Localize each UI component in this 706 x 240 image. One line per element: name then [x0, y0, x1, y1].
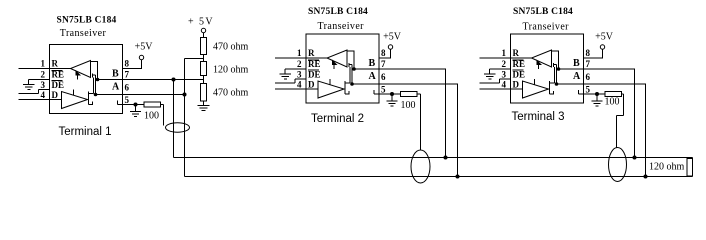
wire A U3: [584, 84, 646, 177]
svg-text:Terminal 3: Terminal 3: [512, 111, 565, 123]
ground pin5 U3: [592, 94, 603, 106]
node A-bus U2: [456, 175, 460, 179]
wire B U2: [379, 69, 446, 158]
node B-bus junction U1: [172, 78, 176, 82]
svg-text:+5V: +5V: [595, 31, 614, 42]
node B-bus U3: [633, 156, 637, 160]
node A-bus U3: [644, 175, 648, 179]
svg-text:+5V: +5V: [383, 31, 402, 42]
wire A U1: [123, 94, 185, 96]
node A junction U1: [183, 93, 187, 97]
resistor 470 ohm upper: [201, 38, 207, 55]
cable ellipse U1: [166, 123, 190, 132]
svg-text:120 ohm: 120 ohm: [649, 162, 685, 173]
wire chain 1: [203, 55, 205, 62]
svg-text:470 ohm: 470 ohm: [213, 42, 249, 53]
wire 100 tail U3: [617, 94, 624, 148]
svg-text:Transeiver: Transeiver: [60, 28, 107, 39]
svg-text:Terminal 2: Terminal 2: [311, 113, 364, 125]
wire B U3: [584, 69, 635, 158]
wire A riser/drop U1: [185, 59, 204, 177]
node B-bus U2: [444, 156, 448, 160]
resistor 120 ohm chain: [201, 62, 207, 76]
svg-text:120 ohm: 120 ohm: [213, 65, 249, 76]
transceiver U2: [275, 34, 386, 103]
ground pin5 U2: [387, 94, 398, 106]
svg-text:Transeiver: Transeiver: [523, 21, 570, 32]
wire B U1: [123, 79, 204, 81]
svg-text:SN75LB C184: SN75LB C184: [308, 7, 368, 17]
wire bus line 2: [185, 176, 693, 178]
wire B drop U1: [173, 80, 175, 158]
node pin5 U2: [390, 92, 394, 96]
cable ellipse U2: [411, 150, 430, 183]
wire bus line 1: [174, 157, 693, 159]
node pin5 U3: [595, 92, 599, 96]
wire chain 2: [203, 76, 205, 84]
resistor 100 U1: [144, 102, 161, 107]
svg-text:100: 100: [605, 97, 620, 108]
wire pin5 U1: [123, 104, 145, 106]
node pin5 U1: [134, 103, 138, 107]
transceiver U3: [480, 34, 591, 103]
wire pin8 U3 to +5V: [584, 50, 603, 59]
svg-text:100: 100: [401, 100, 416, 111]
resistor 100 U2: [401, 92, 418, 97]
svg-text:470 ohm: 470 ohm: [213, 88, 249, 99]
cable ellipse U3: [609, 148, 627, 182]
svg-text:+5V: +5V: [135, 41, 154, 52]
resistor 120 ohm termination: [692, 158, 694, 177]
terminal +5V U3: [600, 45, 604, 49]
svg-text:SN75LB C184: SN75LB C184: [513, 7, 573, 17]
svg-text:+ 5V: + 5V: [188, 17, 214, 28]
terminal +5V U2: [388, 45, 392, 49]
svg-text:100: 100: [144, 111, 159, 122]
terminal +5V chain: [201, 28, 205, 32]
ground chain: [198, 106, 210, 111]
wire pin8 U1 to +5V: [123, 60, 142, 69]
wire pin5 U3: [584, 93, 606, 95]
wire A U2: [379, 84, 458, 177]
resistor 470 ohm lower: [201, 84, 207, 102]
terminal +5V U1: [139, 55, 143, 59]
svg-text:Terminal 1: Terminal 1: [59, 126, 112, 138]
wire pin8 U2 to +5V: [379, 50, 391, 59]
wire chain top: [203, 33, 205, 38]
wire chain bottom: [203, 101, 205, 106]
svg-text:SN75LB C184: SN75LB C184: [57, 16, 117, 26]
resistor 100 U3: [605, 92, 622, 97]
ground pin5 U1: [130, 105, 141, 117]
wire 100 tail U2: [417, 94, 421, 150]
svg-text:Transeiver: Transeiver: [318, 21, 365, 32]
wire pin5 U2: [379, 93, 401, 95]
transceiver U1: [19, 45, 130, 114]
wire 100 tail U1: [161, 105, 164, 126]
